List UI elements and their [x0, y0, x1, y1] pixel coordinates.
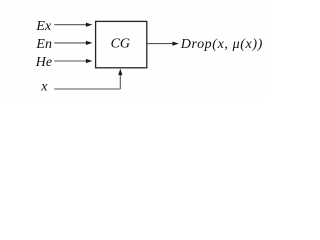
svg-text:x: x	[40, 80, 48, 95]
wire x vertical	[119, 74, 121, 90]
block CG	[96, 21, 147, 67]
svg-text:En: En	[35, 37, 52, 52]
svg-text:Ex: Ex	[35, 19, 52, 34]
wire En	[54, 42, 86, 44]
wire He	[54, 60, 86, 62]
wire output	[147, 43, 173, 45]
arrowhead He	[86, 59, 93, 63]
svg-text:Drop(x, μ(x)): Drop(x, μ(x))	[180, 37, 263, 52]
wire Ex	[54, 24, 86, 26]
arrowhead En	[86, 41, 93, 45]
wire x horizontal	[54, 88, 120, 90]
arrowhead output	[172, 42, 179, 46]
svg-text:CG: CG	[111, 37, 130, 52]
svg-text:He: He	[35, 55, 52, 70]
arrowhead x	[118, 69, 122, 76]
arrowhead Ex	[86, 23, 93, 27]
